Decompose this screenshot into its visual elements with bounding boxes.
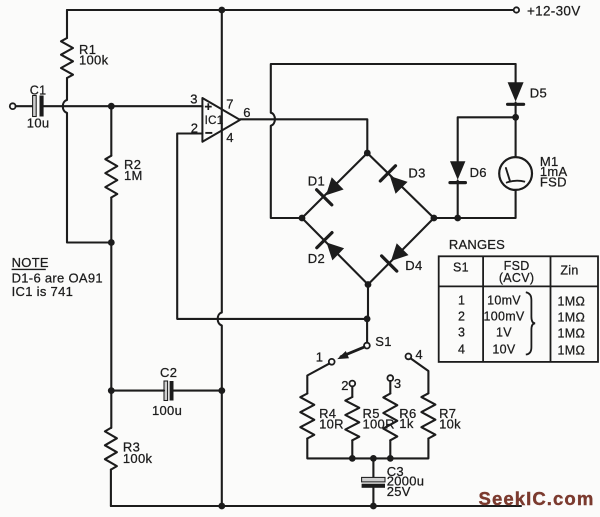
- svg-text:100u: 100u: [152, 403, 182, 418]
- svg-text:1MΩ: 1MΩ: [557, 327, 585, 341]
- svg-text:4: 4: [415, 347, 423, 362]
- svg-text:IC1: IC1: [205, 115, 224, 127]
- svg-text:D6: D6: [470, 165, 487, 180]
- svg-text:1: 1: [316, 350, 324, 365]
- svg-text:(ACV): (ACV): [499, 271, 535, 285]
- svg-text:2: 2: [458, 309, 465, 323]
- svg-text:1k: 1k: [399, 416, 414, 431]
- svg-text:4: 4: [458, 342, 465, 356]
- svg-text:D5: D5: [530, 85, 547, 100]
- svg-text:6: 6: [243, 105, 251, 120]
- svg-text:10mV: 10mV: [487, 293, 521, 307]
- svg-text:1MΩ: 1MΩ: [557, 311, 585, 325]
- svg-text:100R: 100R: [363, 416, 395, 431]
- svg-text:3: 3: [458, 325, 465, 339]
- svg-text:100k: 100k: [123, 451, 153, 466]
- svg-text:FSD: FSD: [540, 174, 567, 189]
- svg-text:D2: D2: [308, 251, 325, 266]
- svg-text:10R: 10R: [319, 416, 344, 431]
- svg-text:S1: S1: [453, 261, 469, 275]
- svg-text:1: 1: [458, 293, 465, 307]
- svg-text:2: 2: [191, 120, 199, 135]
- svg-text:100mV: 100mV: [483, 309, 524, 323]
- svg-text:10V: 10V: [492, 342, 516, 356]
- svg-text:D1-6 are OA91: D1-6 are OA91: [12, 270, 103, 285]
- svg-text:1M: 1M: [124, 168, 143, 183]
- svg-text:7: 7: [226, 96, 234, 111]
- svg-text:3: 3: [190, 91, 198, 106]
- svg-text:NOTE: NOTE: [12, 255, 49, 270]
- svg-text:4: 4: [226, 130, 234, 145]
- svg-text:IC1 is 741: IC1 is 741: [12, 284, 74, 299]
- svg-text:D3: D3: [408, 166, 425, 181]
- svg-text:1MΩ: 1MΩ: [557, 344, 585, 358]
- svg-text:100k: 100k: [79, 53, 109, 68]
- svg-text:S1: S1: [375, 334, 392, 349]
- svg-text:1MΩ: 1MΩ: [557, 295, 585, 309]
- svg-text:Zin: Zin: [560, 263, 578, 277]
- svg-text:RANGES: RANGES: [449, 237, 505, 252]
- svg-text:1V: 1V: [496, 325, 512, 339]
- svg-text:D4: D4: [405, 258, 422, 273]
- svg-text:+12-30V: +12-30V: [527, 3, 581, 18]
- svg-text:10k: 10k: [439, 416, 461, 431]
- svg-text:25V: 25V: [387, 484, 411, 499]
- svg-text:10u: 10u: [27, 116, 50, 131]
- svg-text:C2: C2: [160, 365, 177, 380]
- svg-text:D1: D1: [308, 174, 325, 189]
- svg-text:2: 2: [341, 378, 349, 393]
- svg-text:3: 3: [394, 376, 402, 391]
- svg-text:C1: C1: [30, 83, 47, 97]
- svg-text:SeekIC.com: SeekIC.com: [479, 488, 595, 509]
